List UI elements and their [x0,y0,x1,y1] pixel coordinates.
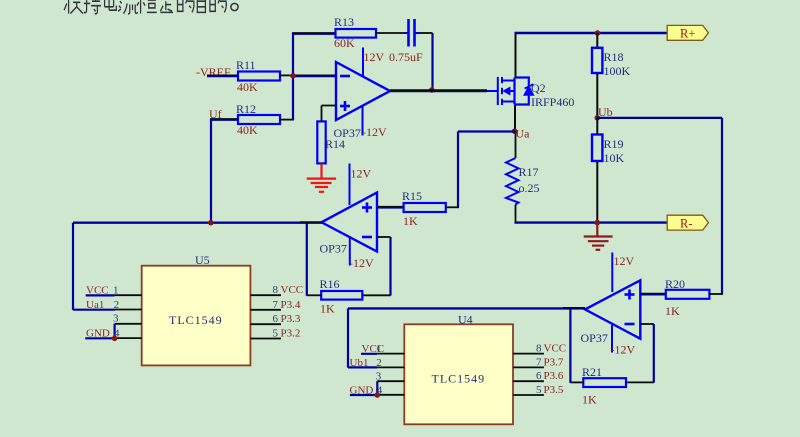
svg-text:1K: 1K [403,214,418,228]
port R- [667,215,708,230]
wire Ub to R19 [596,118,598,135]
wire U3 output to left [348,307,585,310]
wire R21 left up to U3 output net [570,308,584,383]
U3 power labels [581,254,636,357]
wire capacitor to corner down to U1 output [419,33,433,91]
resistor R11 [236,58,280,94]
svg-text:R14: R14 [325,137,345,151]
resistor R12 [236,102,280,137]
resistor R16 [320,277,363,316]
junction Uf / U2 output [208,220,214,226]
svg-text:TLC1549: TLC1549 [432,372,486,386]
svg-text:P3.2: P3.2 [281,328,301,340]
U5 pin 1 wire + VCC label [86,285,142,297]
svg-text:IRFP460: IRFP460 [531,95,574,109]
wire Uf to R12 [210,119,239,120]
resistor R14 [317,121,345,163]
svg-text:R21: R21 [582,365,602,379]
wire R15 to Ua vertical [446,206,459,208]
恒 [137,0,157,14]
svg-text:1K: 1K [665,304,680,318]
node Ub [595,105,613,121]
wire Q2 source down to Ua [514,105,516,132]
svg-text:Ub1: Ub1 [350,357,369,369]
transistor Q2 IRFP460 (N-MOSFET with body diode) [487,77,534,105]
svg-text:2: 2 [376,357,382,369]
svg-text:0.75uF: 0.75uF [389,50,423,64]
U4 pin 3 wire [376,370,405,395]
wire U2 output to left [73,221,322,224]
junction bottom rail / R19 / ground [595,220,601,226]
wire Uf vertical [210,119,212,223]
op-amp U3 OP37 (points left) [585,253,640,353]
resistor R15 [402,189,446,228]
svg-text:5: 5 [536,384,542,396]
svg-text:Ua: Ua [516,127,531,141]
svg-text:P3.7: P3.7 [544,356,564,368]
svg-text:U4: U4 [458,313,473,327]
IC U4 TLC1549 [404,313,513,425]
svg-text:R16: R16 [320,277,340,291]
svg-text:7: 7 [273,299,279,311]
svg-text:100K: 100K [604,64,631,78]
U4 pin 6 wire + P3.6 [513,370,564,382]
svg-text:GND: GND [350,384,374,396]
wire Ub branch right [597,118,722,294]
U5 pin 5 wire + P3.2 [250,328,300,340]
流 [118,0,138,14]
svg-text:R-: R- [680,217,693,231]
svg-text:8: 8 [273,284,279,296]
U5 pin 2 black lead + Ua1 label [86,299,142,311]
resistor R20 [665,277,709,318]
svg-text:8: 8 [536,343,542,355]
wire feedback vertical [292,33,294,120]
svg-text:3: 3 [376,370,382,382]
svg-text:3: 3 [113,313,119,325]
svg-text:10K: 10K [604,151,625,165]
svg-text:12V: 12V [351,167,372,181]
svg-text:5: 5 [273,328,279,340]
svg-text:OP37: OP37 [581,331,608,345]
svg-text:12V: 12V [364,50,385,64]
wire R13 to capacitor [376,32,405,34]
resistor R13 [334,15,376,50]
的 (2nd) [210,0,226,12]
svg-text:VCC: VCC [544,343,567,355]
定 [160,0,174,12]
wire R11 to node [280,74,293,76]
电 [105,0,117,10]
wire down to U5 pin2 [73,223,115,310]
bottom rail wire to R- [515,221,669,223]
wire U3 + input to R20 [640,294,666,295]
U4 pin 8 wire + VCC [513,343,566,355]
resistor R18 [592,48,631,78]
wire U2 - input to R16 feedback [362,237,391,296]
wire R18 bottom to Ub [596,73,598,118]
svg-text:R18: R18 [604,50,624,64]
svg-text:o.25: o.25 [519,181,540,195]
svg-text:R11: R11 [236,58,256,72]
svg-text:40K: 40K [237,123,258,137]
resistor R17 (zigzag) [506,158,540,205]
wire Ua to R17 [515,131,517,158]
svg-text:1: 1 [376,343,382,355]
持 [84,0,101,14]
wire U1 output to Q2 gate [390,90,487,91]
wire R12 to feedback node [280,119,294,121]
junction top rail / R18 [595,30,601,36]
wire U2 + input to R15 [377,207,404,208]
svg-text:OP37: OP37 [320,242,347,256]
node: -VREF input label [196,65,231,79]
wire R17 to bottom rail [515,205,517,224]
capacitor 0.75uF [389,19,423,64]
svg-text:12V: 12V [614,254,635,268]
wire Q2 drain up to rail [515,33,517,77]
svg-text:-12V: -12V [362,125,387,139]
svg-text:GND: GND [86,328,110,340]
junction U5 GND [112,336,118,342]
的 [178,0,194,12]
U2 power labels [320,167,374,271]
svg-text:Q2: Q2 [531,81,546,95]
wire down to U4 pin2 [348,308,377,367]
wire node to op-amp U1 inverting input [293,75,336,76]
。 full stop [231,3,238,10]
svg-text:6: 6 [273,313,279,325]
svg-text:VCC: VCC [86,285,109,297]
node Ua [512,127,530,141]
svg-text:R12: R12 [236,102,256,116]
U5 pin 6 wire + P3.3 [250,313,300,325]
svg-text:-12V: -12V [349,256,374,270]
svg-text:2: 2 [114,299,120,311]
保 [64,0,83,14]
wire R14 to ground [320,164,322,179]
wire R16 left up to U2 output net [307,223,322,296]
junction on U1 output [429,87,435,93]
svg-text:40K: 40K [237,80,258,94]
svg-text:1: 1 [113,285,119,297]
svg-text:1K: 1K [582,393,597,407]
svg-text:R17: R17 [519,165,539,179]
resistor R19 [592,135,625,166]
U5 pin 3 wire [113,313,142,339]
wire top feedback to R13 [292,33,336,34]
op-amp U1 OP37 [336,48,390,136]
U5 pin 4 wire + GND label [85,328,142,340]
node Uf label [209,107,222,121]
Q2 labels [531,81,574,109]
wire -VREF to R11 [207,75,239,76]
svg-text:P3.4: P3.4 [281,299,301,311]
U4 pin 4 wire + GND label [350,384,405,396]
wire R18 top [596,33,598,48]
svg-text:TLC1549: TLC1549 [169,313,223,327]
U4 pin 7 wire + P3.7 [513,356,564,368]
svg-text:U5: U5 [195,253,210,267]
svg-text:7: 7 [536,356,542,368]
wire U3 - input to R21 [626,324,654,383]
title text 保持电流恒定的目的。(cropped at top) [64,0,226,14]
U5 pin 8 wire + VCC [250,284,303,296]
svg-text:P3.3: P3.3 [281,313,301,325]
svg-text:R15: R15 [402,189,422,203]
svg-text:P3.6: P3.6 [544,370,564,382]
svg-text:6: 6 [536,370,542,382]
ground (dark red) at bottom rail [584,223,613,250]
svg-text:VCC: VCC [281,284,304,296]
top rail wire to R+ [515,32,669,34]
ground (bright red) under R14 [307,179,336,192]
svg-text:60K: 60K [334,36,355,50]
port R+ [667,25,708,40]
IC U5 TLC1549 [142,253,251,365]
resistor R21 [582,365,626,407]
U1 power labels [334,50,387,140]
svg-text:R19: R19 [604,137,624,151]
svg-text:P3.5: P3.5 [544,384,564,396]
wire R20 to Ub vertical [709,293,723,295]
U4 pin 5 wire + P3.5 [513,384,564,396]
wire R19 bottom to rail [596,161,598,223]
U4 pin 2 black lead + Ub1 label [350,357,405,369]
svg-text:R20: R20 [665,277,685,291]
svg-text:-12V: -12V [611,343,636,357]
svg-text:R+: R+ [680,27,695,41]
svg-text:Ua1: Ua1 [86,299,104,311]
svg-text:1K: 1K [320,302,335,316]
U5 pin 7 wire + P3.4 [250,299,300,311]
wire U1 noninverting input [322,106,337,123]
op-amp U2 OP37 (points left) [322,164,378,266]
U4 pin 1 wire + VCC label [361,343,404,355]
junction U4 GND [375,392,381,398]
目 [197,0,205,12]
junction at R11/U1 input [290,73,296,79]
svg-text:R13: R13 [334,15,354,29]
wire Ua branch left [458,132,515,209]
